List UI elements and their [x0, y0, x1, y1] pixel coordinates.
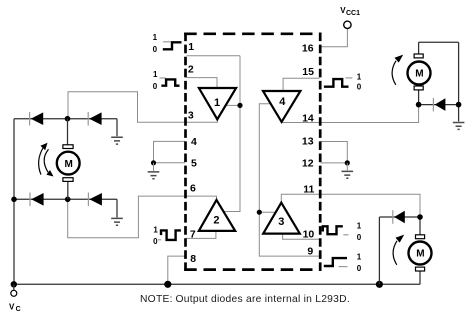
wire pin7 to driver 2 input — [186, 231, 216, 239]
svg-text:0: 0 — [153, 45, 158, 54]
input waveform pin 2 pulse — [160, 78, 180, 86]
svg-text:1: 1 — [188, 41, 194, 53]
svg-text:4: 4 — [279, 96, 286, 108]
diode D1 — [30, 112, 44, 126]
wire left H-bridge left vertical — [13, 119, 15, 285]
node pin12/13 ground junction — [345, 160, 350, 165]
node left motor top — [65, 116, 71, 122]
rotation arrow lower right motor — [393, 235, 404, 265]
node 3,4EN junction — [257, 210, 262, 215]
node pin4/5 ground junction — [151, 160, 156, 165]
svg-text:12: 12 — [302, 158, 314, 170]
svg-text:M: M — [415, 69, 423, 80]
svg-text:0: 0 — [357, 83, 362, 92]
svg-text:7: 7 — [190, 228, 196, 240]
node lower-right diode rail junction — [376, 281, 383, 288]
node H-bridge left rail junction — [11, 197, 17, 203]
svg-text:2: 2 — [188, 63, 194, 75]
svg-text:9: 9 — [307, 246, 313, 258]
node pin8 rail junction — [164, 281, 171, 288]
wire pin10 to driver 3 input — [283, 234, 320, 240]
op-amp U4 driver 4 — [263, 91, 300, 122]
svg-text:C: C — [16, 306, 21, 313]
node 1,2EN junction — [237, 103, 242, 108]
svg-text:1: 1 — [153, 33, 158, 42]
input waveform pin 15 pulse — [324, 78, 353, 87]
svg-text:1: 1 — [357, 253, 362, 262]
svg-text:3: 3 — [278, 216, 284, 228]
svg-text:V: V — [9, 302, 15, 311]
node left motor bottom — [65, 197, 71, 203]
svg-text:16: 16 — [302, 42, 314, 54]
motor M1 left — [57, 119, 80, 200]
op-amp U2 driver 2 — [199, 200, 235, 231]
svg-text:6: 6 — [190, 182, 196, 194]
diode D4 — [88, 193, 102, 207]
ground top-right of H-bridge — [111, 119, 123, 144]
svg-text:13: 13 — [302, 136, 314, 148]
op-amp U1 driver 1 — [199, 88, 236, 119]
motor M3 lower right — [379, 217, 431, 284]
svg-text:1: 1 — [357, 73, 362, 82]
wire pin11 internal: driver 3 output — [281, 194, 319, 203]
wire pin8 to VC rail — [168, 256, 185, 284]
svg-text:1: 1 — [153, 226, 158, 235]
svg-text:1: 1 — [153, 70, 158, 79]
svg-text:0: 0 — [153, 237, 158, 246]
wire pin2 to driver 1 input — [187, 78, 218, 89]
svg-text:NOTE:: NOTE: — [140, 294, 173, 305]
wire pin6 net: driver2 output to left motor bottom node — [68, 196, 217, 238]
svg-text:Output diodes are internal in: Output diodes are internal in L293D. — [176, 294, 350, 305]
svg-text:M: M — [65, 159, 73, 170]
wire enable tap to driver 1 — [226, 104, 240, 106]
diode D2 — [88, 112, 101, 126]
ground pins 4,5 — [148, 163, 160, 179]
node upper motor output junction — [416, 102, 422, 108]
terminal VCC1 — [344, 21, 351, 28]
svg-text:11: 11 — [303, 184, 314, 196]
wire pin1 internal to 1,2EN line — [187, 55, 241, 57]
svg-text:3: 3 — [188, 110, 194, 122]
svg-text:15: 15 — [302, 66, 314, 78]
terminal VC — [11, 284, 17, 296]
wire pin12 to ground — [321, 162, 348, 164]
svg-text:0: 0 — [357, 233, 362, 242]
diode D6 — [393, 210, 405, 224]
ground bottom-right of H-bridge — [111, 199, 123, 225]
svg-text:0: 0 — [153, 82, 158, 91]
diode D5 — [433, 98, 445, 112]
wire pin14 external to upper right motor — [321, 105, 419, 123]
ground pins 12,13 — [342, 163, 354, 178]
wire left H-bridge top diode row — [14, 118, 117, 120]
wire pin15 to driver 4 input — [283, 78, 319, 91]
node VC terminal junction — [11, 281, 17, 287]
wire pin5 to ground — [154, 162, 186, 164]
svg-text:1: 1 — [357, 221, 362, 230]
svg-text:CC1: CC1 — [346, 10, 360, 17]
L293D IC dashed outline — [184, 33, 321, 271]
svg-text:2: 2 — [213, 214, 219, 226]
rotation arrow left motor CCW — [39, 143, 48, 175]
motor M2 upper right — [408, 42, 459, 121]
svg-text:1: 1 — [214, 97, 220, 109]
wire left H-bridge bottom diode row — [13, 198, 117, 200]
input waveform pin 9 step — [324, 258, 348, 267]
svg-text:14: 14 — [302, 113, 314, 125]
svg-text:10: 10 — [303, 229, 315, 241]
wire pin13 to ground — [321, 142, 348, 163]
svg-text:4: 4 — [191, 136, 197, 148]
node upper diode ground junction — [456, 102, 462, 108]
wire enable tap to driver 3 — [259, 211, 276, 213]
node lower motor junction — [417, 214, 423, 220]
input waveform pin 7 notch — [158, 230, 181, 240]
svg-text:5: 5 — [191, 158, 197, 170]
wire pin4 to ground — [154, 141, 186, 162]
svg-text:M: M — [416, 249, 424, 260]
wire pin3 net: driver1 output to left motor top node — [68, 92, 217, 123]
op-amp U3 driver 3 — [263, 203, 300, 234]
wire pin9 net: 3,4EN vertical — [259, 104, 319, 256]
wire pin16 to VCC1 terminal — [321, 29, 348, 47]
wire VC bottom rail — [14, 283, 420, 285]
diode D3 — [30, 193, 44, 207]
wire 1,2EN vertical net — [224, 56, 241, 212]
rotation arrow upper right motor — [392, 55, 403, 85]
input waveform pin 1 step — [163, 42, 182, 50]
wire pin11 external to lower right motor — [321, 194, 421, 217]
wire pin14 internal: driver 4 output — [282, 121, 320, 124]
rotation arrow left motor CW — [44, 149, 53, 176]
input waveform pin 10 notch — [323, 226, 349, 235]
ground upper right motor — [453, 123, 465, 130]
svg-text:8: 8 — [190, 253, 196, 265]
svg-text:0: 0 — [357, 264, 362, 273]
